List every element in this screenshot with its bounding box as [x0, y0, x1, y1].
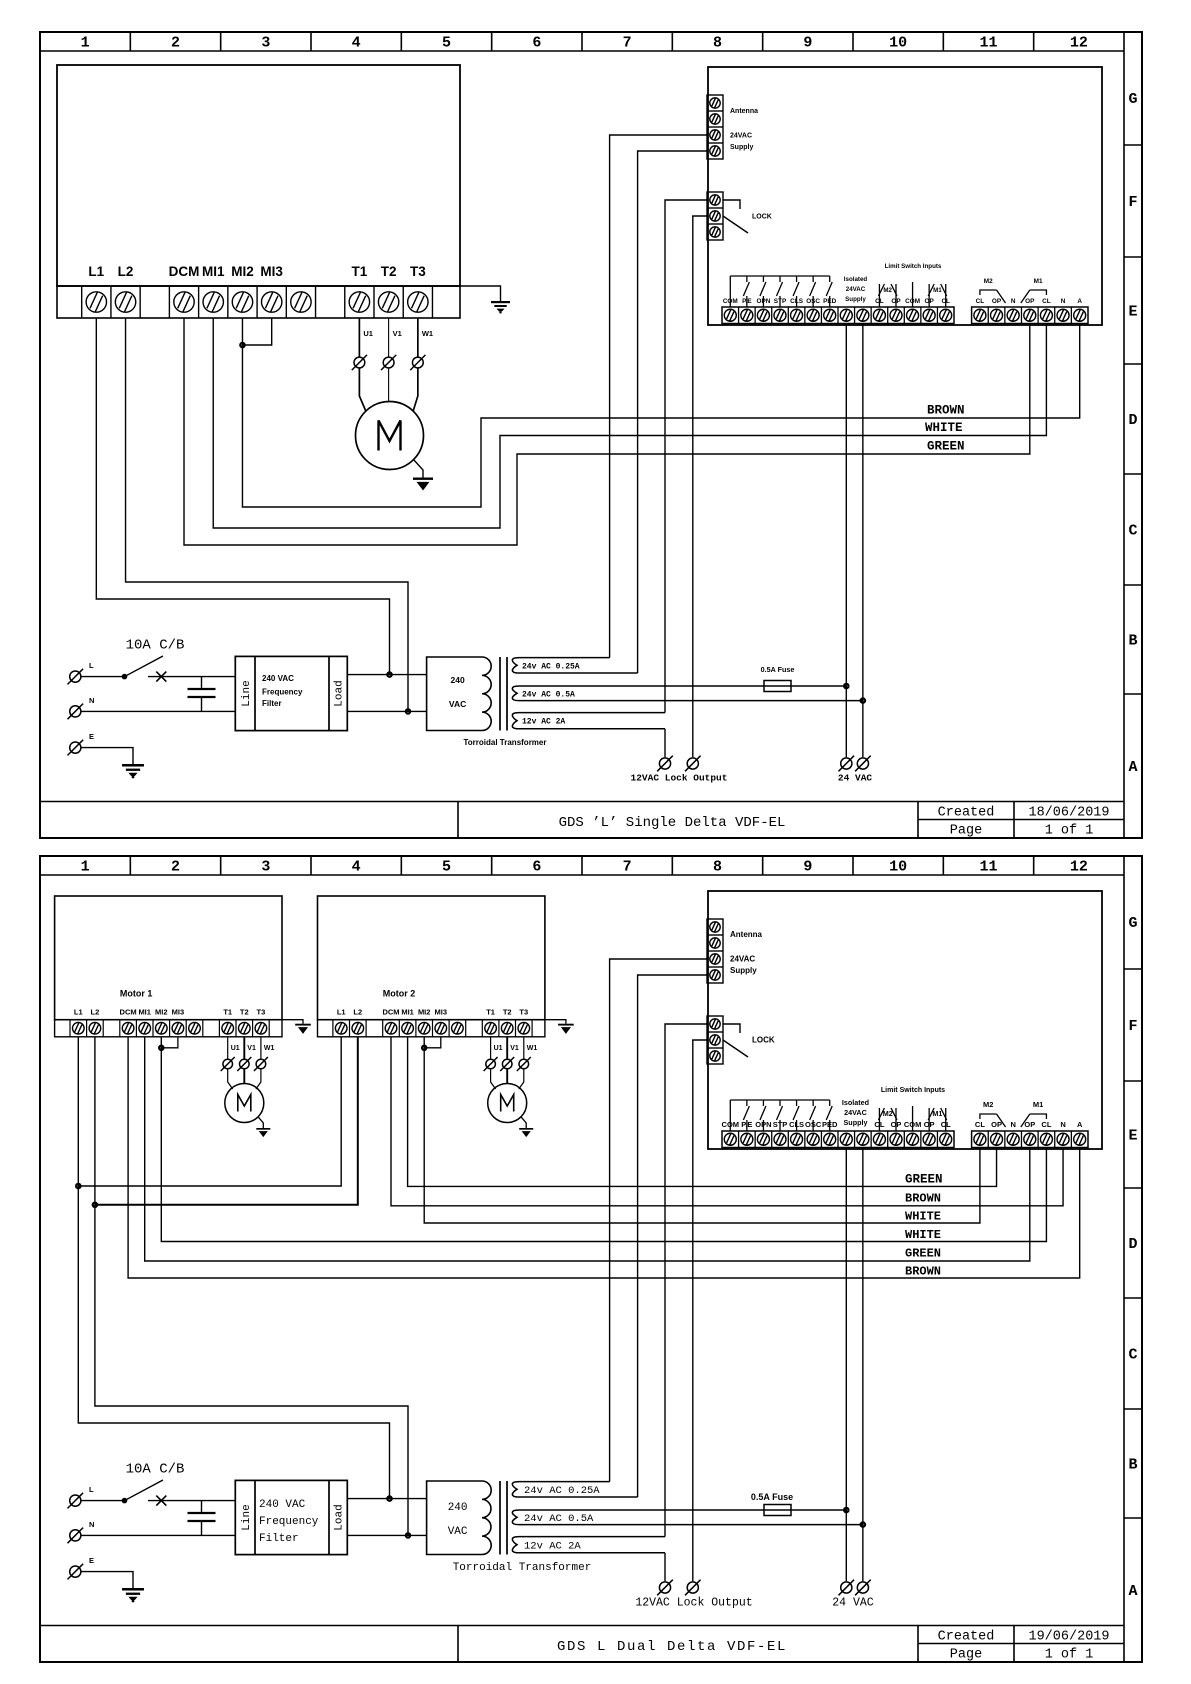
wire filter Load to transformer L	[347, 1498, 426, 1500]
svg-text:Isolated: Isolated	[842, 1098, 869, 1107]
svg-text:M2: M2	[983, 1100, 993, 1109]
transformer secondary 24v AC 0.5A	[512, 686, 863, 701]
svg-text:OP: OP	[992, 298, 1002, 305]
svg-text:MI2: MI2	[231, 264, 254, 279]
svg-text:3: 3	[261, 859, 270, 876]
svg-text:10: 10	[889, 859, 907, 876]
svg-text:9: 9	[803, 35, 812, 52]
wire filter Load to transformer L	[347, 674, 426, 676]
svg-text:L: L	[89, 661, 94, 670]
svg-text:M1: M1	[933, 287, 942, 294]
wire isolated supply 2 down to 24VAC output	[862, 1148, 864, 1582]
svg-text:10A C/B: 10A C/B	[126, 638, 185, 654]
svg-text:Supply: Supply	[845, 296, 866, 303]
svg-text:MI2: MI2	[418, 1008, 431, 1017]
input switch contact	[746, 276, 748, 282]
transformer secondary 24v AC 0.25A	[512, 658, 637, 673]
wire E to earth ground	[82, 1572, 134, 1588]
controller earth ground	[491, 301, 510, 303]
svg-text:24VAC: 24VAC	[846, 286, 866, 293]
input switch contact	[746, 1100, 748, 1106]
svg-text:11: 11	[979, 859, 997, 876]
input switch contact	[829, 1100, 831, 1106]
svg-text:L1: L1	[74, 1008, 83, 1017]
svg-text:Frequency: Frequency	[259, 1516, 319, 1528]
wire BROWN motor1 DCM to receiver A	[128, 1037, 1080, 1278]
svg-text:F: F	[1128, 194, 1137, 211]
input switch contact	[779, 1100, 781, 1106]
wire lock terminal 1 down	[665, 200, 707, 713]
terminal E	[68, 1564, 84, 1580]
svg-text:Load: Load	[334, 680, 346, 706]
motor M1 circle	[356, 402, 424, 470]
wire 24VAC supply to transformer 24v0.25A top	[610, 135, 707, 658]
wire 24VAC supply to transformer 24v0.25A top	[610, 959, 707, 1482]
input switch contact	[796, 1100, 798, 1106]
svg-text:Filter: Filter	[262, 699, 282, 708]
svg-text:LOCK: LOCK	[752, 214, 772, 221]
svg-text:240: 240	[451, 675, 465, 685]
svg-text:U1: U1	[231, 1045, 240, 1052]
transformer T1 primary winding 240 VAC	[427, 657, 492, 731]
limit switch M1 contacts	[928, 1108, 930, 1131]
svg-text:E: E	[1128, 1128, 1137, 1145]
input switch bus	[730, 275, 829, 277]
row letter strip	[1124, 968, 1142, 970]
wire L2 to filter junction	[126, 318, 408, 711]
wire L to breaker	[82, 676, 125, 678]
wire L1 bus motor1 to motor2	[78, 1037, 341, 1186]
svg-text:240 VAC: 240 VAC	[262, 674, 294, 683]
input switch contact	[779, 276, 781, 282]
svg-text:L: L	[89, 1485, 94, 1494]
wire breaker to filter Line L	[148, 1500, 235, 1502]
svg-text:Load: Load	[334, 1504, 346, 1530]
svg-text:B: B	[1128, 633, 1137, 650]
frequency filter FL1 box	[235, 1480, 347, 1554]
wire 24VAC supply to transformer 24v0.25A bottom	[638, 975, 707, 1497]
svg-text:2: 2	[171, 859, 180, 876]
svg-text:24 VAC: 24 VAC	[838, 773, 873, 784]
svg-text:CL: CL	[1041, 1120, 1051, 1129]
svg-text:A: A	[1077, 1120, 1083, 1129]
wire breaker to filter Line L	[148, 676, 235, 678]
wire L1 motor1 down to filter junction	[78, 1037, 389, 1499]
svg-text:240: 240	[448, 1502, 468, 1514]
lock terminal strip	[707, 1016, 723, 1064]
motor M1 ground	[414, 460, 424, 478]
svg-text:M1: M1	[1033, 1100, 1043, 1109]
svg-text:T1: T1	[486, 1008, 495, 1017]
svg-text:GREEN: GREEN	[905, 1247, 941, 1261]
svg-text:18/06/2019: 18/06/2019	[1028, 806, 1109, 821]
svg-text:E: E	[89, 1556, 94, 1565]
wire 12v bottom to lock output 1	[664, 1553, 666, 1581]
svg-text:0.5A Fuse: 0.5A Fuse	[751, 1492, 793, 1502]
svg-text:24v AC 0.5A: 24v AC 0.5A	[524, 1513, 594, 1525]
svg-text:CL: CL	[975, 1120, 985, 1129]
drawing border frame	[40, 856, 1142, 1662]
svg-text:12: 12	[1070, 859, 1088, 876]
wire GREEN motor1 MI1 to receiver OP	[145, 1037, 1030, 1261]
wire L1 to filter junction	[96, 318, 389, 675]
wire N to filter Line N	[82, 1534, 236, 1536]
svg-text:L1: L1	[88, 264, 104, 279]
junction L2 feed	[406, 709, 410, 713]
svg-text:Motor 2: Motor 2	[383, 989, 416, 999]
svg-text:Limit Switch Inputs: Limit Switch Inputs	[881, 1087, 945, 1094]
junction L2 bus	[93, 1203, 97, 1207]
svg-text:VAC: VAC	[448, 1526, 468, 1538]
svg-text:MI3: MI3	[435, 1008, 448, 1017]
svg-text:N: N	[1011, 298, 1016, 305]
Motor 2 motor ground	[521, 1117, 526, 1128]
input switch bus	[730, 1099, 829, 1101]
terminal 12VAC lock output 2	[685, 1580, 701, 1596]
wire DCM GREEN run	[184, 318, 1030, 545]
svg-text:B: B	[1128, 1457, 1137, 1474]
svg-text:GDS L Dual Delta VDF-EL: GDS L Dual Delta VDF-EL	[557, 1639, 787, 1655]
wire E to earth ground	[82, 748, 134, 764]
terminal L	[68, 1493, 84, 1509]
svg-text:BROWN: BROWN	[905, 1265, 941, 1279]
svg-text:T2: T2	[503, 1008, 512, 1017]
Motor 1 MI3 link to MI2	[161, 1037, 178, 1048]
junction MI2/MI3	[240, 343, 244, 347]
junction isolated supply / fuse wire	[844, 684, 848, 688]
input switch contact	[762, 1100, 764, 1106]
svg-text:GDS ’L’ Single Delta VDF-EL: GDS ’L’ Single Delta VDF-EL	[559, 815, 786, 831]
column header strip	[40, 50, 1124, 52]
svg-text:DCM: DCM	[169, 264, 200, 279]
svg-text:U1: U1	[494, 1045, 503, 1052]
Motor 2 motor wires	[490, 1037, 492, 1059]
junction L2 feed	[406, 1533, 410, 1537]
svg-text:L2: L2	[118, 264, 134, 279]
svg-text:BROWN: BROWN	[905, 1192, 941, 1206]
receiver control board box U1	[708, 891, 1102, 1149]
svg-text:CL: CL	[976, 298, 985, 305]
svg-text:MI1: MI1	[138, 1008, 151, 1017]
wire N to filter Line N	[82, 710, 236, 712]
svg-text:N: N	[89, 696, 94, 705]
svg-text:3: 3	[261, 35, 270, 52]
svg-text:11: 11	[979, 35, 997, 52]
svg-text:DCM: DCM	[382, 1008, 399, 1017]
wire filter Load to transformer N	[347, 1534, 426, 1536]
svg-text:6: 6	[532, 35, 541, 52]
svg-text:24VAC: 24VAC	[730, 133, 752, 140]
VFD controller box	[57, 65, 460, 286]
svg-text:E: E	[1128, 304, 1137, 321]
terminal 24 VAC 2	[855, 1580, 871, 1596]
breaker X mark	[156, 672, 166, 682]
svg-text:W1: W1	[264, 1045, 275, 1052]
svg-text:T3: T3	[257, 1008, 266, 1017]
terminal 24 VAC 1	[839, 756, 855, 772]
transformer secondary 12v AC 2A	[512, 713, 665, 729]
wire MI3 link to MI2	[242, 318, 271, 345]
wire MI1 WHITE run	[213, 318, 1046, 528]
svg-text:Antenna: Antenna	[730, 108, 758, 115]
svg-text:1: 1	[81, 35, 90, 52]
svg-text:MI1: MI1	[401, 1008, 414, 1017]
Motor 1 motor ground	[258, 1117, 263, 1128]
transformer T1 primary winding 240 VAC	[427, 1481, 492, 1555]
wire L2 motor1 down to filter junction	[95, 1037, 408, 1536]
svg-text:V1: V1	[510, 1045, 519, 1052]
svg-text:Filter: Filter	[259, 1533, 299, 1545]
receiver motor terminal strip	[972, 307, 1088, 324]
transformer secondary 24v AC 0.25A	[512, 1482, 637, 1497]
M1 bracket	[1030, 1114, 1047, 1119]
svg-text:OP: OP	[1025, 298, 1035, 305]
svg-text:T3: T3	[410, 264, 426, 279]
svg-text:OP: OP	[991, 1120, 1002, 1129]
svg-text:7: 7	[623, 35, 632, 52]
terminal E	[68, 740, 84, 756]
Motor 1 box	[55, 896, 282, 1020]
junction isolated supply / fuse wire	[844, 1508, 848, 1512]
svg-text:U1: U1	[363, 329, 373, 338]
input switch contact	[762, 276, 764, 282]
wire isolated supply 2 down to 24VAC output	[862, 324, 864, 758]
svg-text:MI3: MI3	[260, 264, 283, 279]
svg-text:A: A	[1128, 1583, 1137, 1600]
input switch contact	[812, 276, 814, 282]
transformer core	[499, 657, 501, 731]
wire L to breaker	[82, 1500, 125, 1502]
Motor 2 MI3 link to MI2	[424, 1037, 441, 1048]
junction L1 feed	[387, 1496, 391, 1500]
svg-text:A: A	[1077, 298, 1082, 305]
terminal 12VAC lock output 1	[657, 756, 673, 772]
svg-text:T2: T2	[240, 1008, 249, 1017]
svg-text:Supply: Supply	[844, 1118, 868, 1127]
svg-text:M2: M2	[883, 1109, 893, 1118]
svg-text:W1: W1	[527, 1045, 538, 1052]
transformer secondary 12v AC 2A	[512, 1537, 665, 1553]
svg-text:N: N	[1061, 298, 1066, 305]
terminal 12VAC lock output 1	[657, 1580, 673, 1596]
input switch contact	[796, 276, 798, 282]
Motor 2 earth wire	[545, 1020, 566, 1024]
circuit breaker CB1 blade	[122, 1498, 128, 1504]
svg-text:Isolated: Isolated	[844, 276, 868, 283]
svg-text:GREEN: GREEN	[905, 1173, 943, 1187]
motor M1 wires U1 V1 W1	[358, 318, 360, 357]
svg-text:1 of 1: 1 of 1	[1045, 1648, 1094, 1663]
Motor 2 motor circle	[488, 1084, 527, 1123]
svg-text:Antenna: Antenna	[730, 930, 763, 939]
M2 bracket	[980, 1114, 997, 1119]
svg-text:D: D	[1128, 412, 1137, 429]
svg-text:8: 8	[713, 859, 722, 876]
svg-text:12v AC 2A: 12v AC 2A	[522, 718, 565, 727]
svg-text:VAC: VAC	[449, 699, 466, 709]
svg-text:1 of 1: 1 of 1	[1045, 824, 1094, 839]
svg-text:Line: Line	[241, 1504, 253, 1530]
junction L1 bus	[76, 1184, 80, 1188]
terminal N	[68, 1528, 84, 1544]
svg-text:5: 5	[442, 35, 451, 52]
svg-text:WHITE: WHITE	[925, 421, 963, 435]
svg-text:N: N	[1010, 1120, 1015, 1129]
transformer secondary 24v AC 0.5A	[512, 1510, 863, 1525]
svg-text:Supply: Supply	[730, 966, 757, 975]
svg-text:GREEN: GREEN	[927, 440, 965, 454]
terminal N	[68, 704, 84, 720]
wire isolated supply 1 down to 24VAC output	[845, 324, 847, 758]
svg-text:A: A	[1128, 759, 1137, 776]
fuse F1 0.5A	[764, 681, 791, 692]
capacitor C1	[201, 677, 203, 689]
svg-text:M2: M2	[984, 278, 993, 285]
terminal L	[68, 669, 84, 685]
svg-text:Torroidal Transformer: Torroidal Transformer	[453, 1562, 592, 1574]
svg-text:N: N	[89, 1520, 94, 1529]
svg-text:MI3: MI3	[172, 1008, 185, 1017]
svg-text:Limit Switch Inputs: Limit Switch Inputs	[885, 263, 942, 270]
svg-text:C: C	[1128, 523, 1137, 540]
limit switch M2 contacts	[878, 1108, 880, 1131]
Motor 1 motor circle	[225, 1084, 264, 1123]
wire WHITE motor1 MI2 to receiver CL	[161, 1037, 1046, 1242]
svg-text:T1: T1	[352, 264, 368, 279]
Motor 1 motor wires	[227, 1037, 229, 1059]
svg-text:WHITE: WHITE	[905, 1210, 941, 1224]
svg-text:M2: M2	[883, 287, 892, 294]
svg-text:M1: M1	[932, 1109, 942, 1118]
svg-text:T2: T2	[381, 264, 397, 279]
svg-text:Supply: Supply	[730, 144, 753, 151]
svg-text:Page: Page	[950, 1648, 982, 1663]
svg-text:Created: Created	[938, 806, 995, 821]
svg-text:Line: Line	[241, 680, 253, 706]
limit switch M1 contacts	[928, 284, 930, 307]
svg-text:5: 5	[442, 859, 451, 876]
title block	[40, 801, 1124, 803]
receiver control board box U1	[708, 67, 1102, 325]
Motor 1 earth wire	[282, 1020, 303, 1024]
circuit breaker CB1 blade	[122, 674, 128, 680]
capacitor C1	[201, 1501, 203, 1513]
svg-text:N: N	[1060, 1120, 1065, 1129]
svg-text:8: 8	[713, 35, 722, 52]
controller terminal strip	[57, 286, 460, 318]
earth ground symbol	[122, 764, 144, 767]
lock terminal strip	[707, 192, 723, 240]
svg-text:7: 7	[623, 859, 632, 876]
svg-text:240 VAC: 240 VAC	[259, 1499, 306, 1511]
fuse F1 0.5A	[764, 1505, 791, 1516]
svg-text:W1: W1	[422, 329, 433, 338]
input switch contact	[829, 276, 831, 282]
svg-text:12v AC 2A: 12v AC 2A	[524, 1541, 581, 1553]
wire lock terminal 1 down	[665, 1024, 707, 1537]
svg-text:12VAC Lock Output: 12VAC Lock Output	[631, 773, 728, 784]
frequency filter FL1 box	[235, 656, 347, 730]
title block	[40, 1625, 1124, 1627]
terminal 24 VAC 1	[839, 1580, 855, 1596]
junction isolated supply 2 / 0.5A return wire	[861, 698, 865, 702]
svg-text:12: 12	[1070, 35, 1088, 52]
earth ground symbol	[122, 1588, 144, 1591]
terminal 12VAC lock output 2	[685, 756, 701, 772]
terminal 24 VAC 2	[855, 756, 871, 772]
svg-text:M1: M1	[1034, 278, 1043, 285]
svg-text:Created: Created	[938, 1630, 995, 1645]
svg-text:OP: OP	[1024, 1120, 1035, 1129]
input switch contact	[812, 1100, 814, 1106]
column header strip	[40, 874, 1124, 876]
svg-text:24VAC: 24VAC	[844, 1108, 867, 1117]
wire 24VAC supply to transformer 24v0.25A bottom	[638, 151, 707, 673]
junction L1 feed	[387, 672, 391, 676]
svg-text:D: D	[1128, 1236, 1137, 1253]
svg-text:WHITE: WHITE	[905, 1228, 941, 1242]
wire 12v bottom to lock output 1	[664, 729, 666, 757]
wire isolated supply 1 down to 24VAC output	[845, 1148, 847, 1582]
svg-text:V1: V1	[393, 329, 402, 338]
breaker X mark	[156, 1496, 166, 1506]
svg-text:MI2: MI2	[155, 1008, 168, 1017]
svg-text:4: 4	[352, 35, 361, 52]
svg-text:6: 6	[532, 859, 541, 876]
svg-text:Motor 1: Motor 1	[120, 989, 153, 999]
receiver input terminal strip	[722, 1131, 954, 1148]
drawing border frame	[40, 32, 1142, 838]
svg-text:0.5A Fuse: 0.5A Fuse	[761, 665, 795, 674]
lock switch symbol	[723, 200, 740, 209]
lock switch symbol	[723, 1024, 740, 1033]
svg-text:L2: L2	[353, 1008, 362, 1017]
Motor 1 terminal strip	[55, 1020, 282, 1037]
wire filter Load to transformer N	[347, 710, 426, 712]
wire GREEN motor2 MI1 to receiver OP	[408, 1037, 997, 1187]
svg-text:E: E	[89, 732, 94, 741]
junction isolated supply 2 / 0.5A return wire	[861, 1522, 865, 1526]
svg-text:12VAC Lock Output: 12VAC Lock Output	[635, 1597, 752, 1610]
controller earth wire	[460, 286, 501, 301]
svg-text:L2: L2	[91, 1008, 100, 1017]
svg-text:LOCK: LOCK	[752, 1036, 775, 1045]
antenna + 24VAC supply terminal strip	[707, 95, 723, 159]
wire lock terminal 2 down to 12VAC output	[693, 216, 707, 757]
svg-text:C: C	[1128, 1347, 1137, 1364]
wire L2 bus motor1 to motor2	[95, 1037, 358, 1205]
svg-text:Frequency: Frequency	[262, 688, 303, 697]
svg-text:T3: T3	[519, 1008, 528, 1017]
Motor 2 box	[318, 896, 545, 1020]
svg-text:MI1: MI1	[202, 264, 225, 279]
svg-text:24 VAC: 24 VAC	[832, 1597, 874, 1610]
svg-text:24v AC 0.5A: 24v AC 0.5A	[522, 690, 575, 699]
receiver motor terminal strip	[972, 1131, 1088, 1148]
svg-text:10: 10	[889, 35, 907, 52]
receiver input terminal strip	[722, 307, 954, 324]
Motor 2 terminal strip	[318, 1020, 545, 1037]
svg-text:9: 9	[803, 859, 812, 876]
svg-text:19/06/2019: 19/06/2019	[1028, 1630, 1109, 1645]
svg-text:Page: Page	[950, 824, 982, 839]
svg-text:CL: CL	[1042, 298, 1051, 305]
svg-text:L1: L1	[337, 1008, 346, 1017]
svg-text:T1: T1	[223, 1008, 232, 1017]
wire BROWN motor2 DCM to receiver N	[391, 1037, 1063, 1206]
antenna + 24VAC supply terminal strip	[707, 919, 723, 983]
transformer core	[499, 1481, 501, 1555]
